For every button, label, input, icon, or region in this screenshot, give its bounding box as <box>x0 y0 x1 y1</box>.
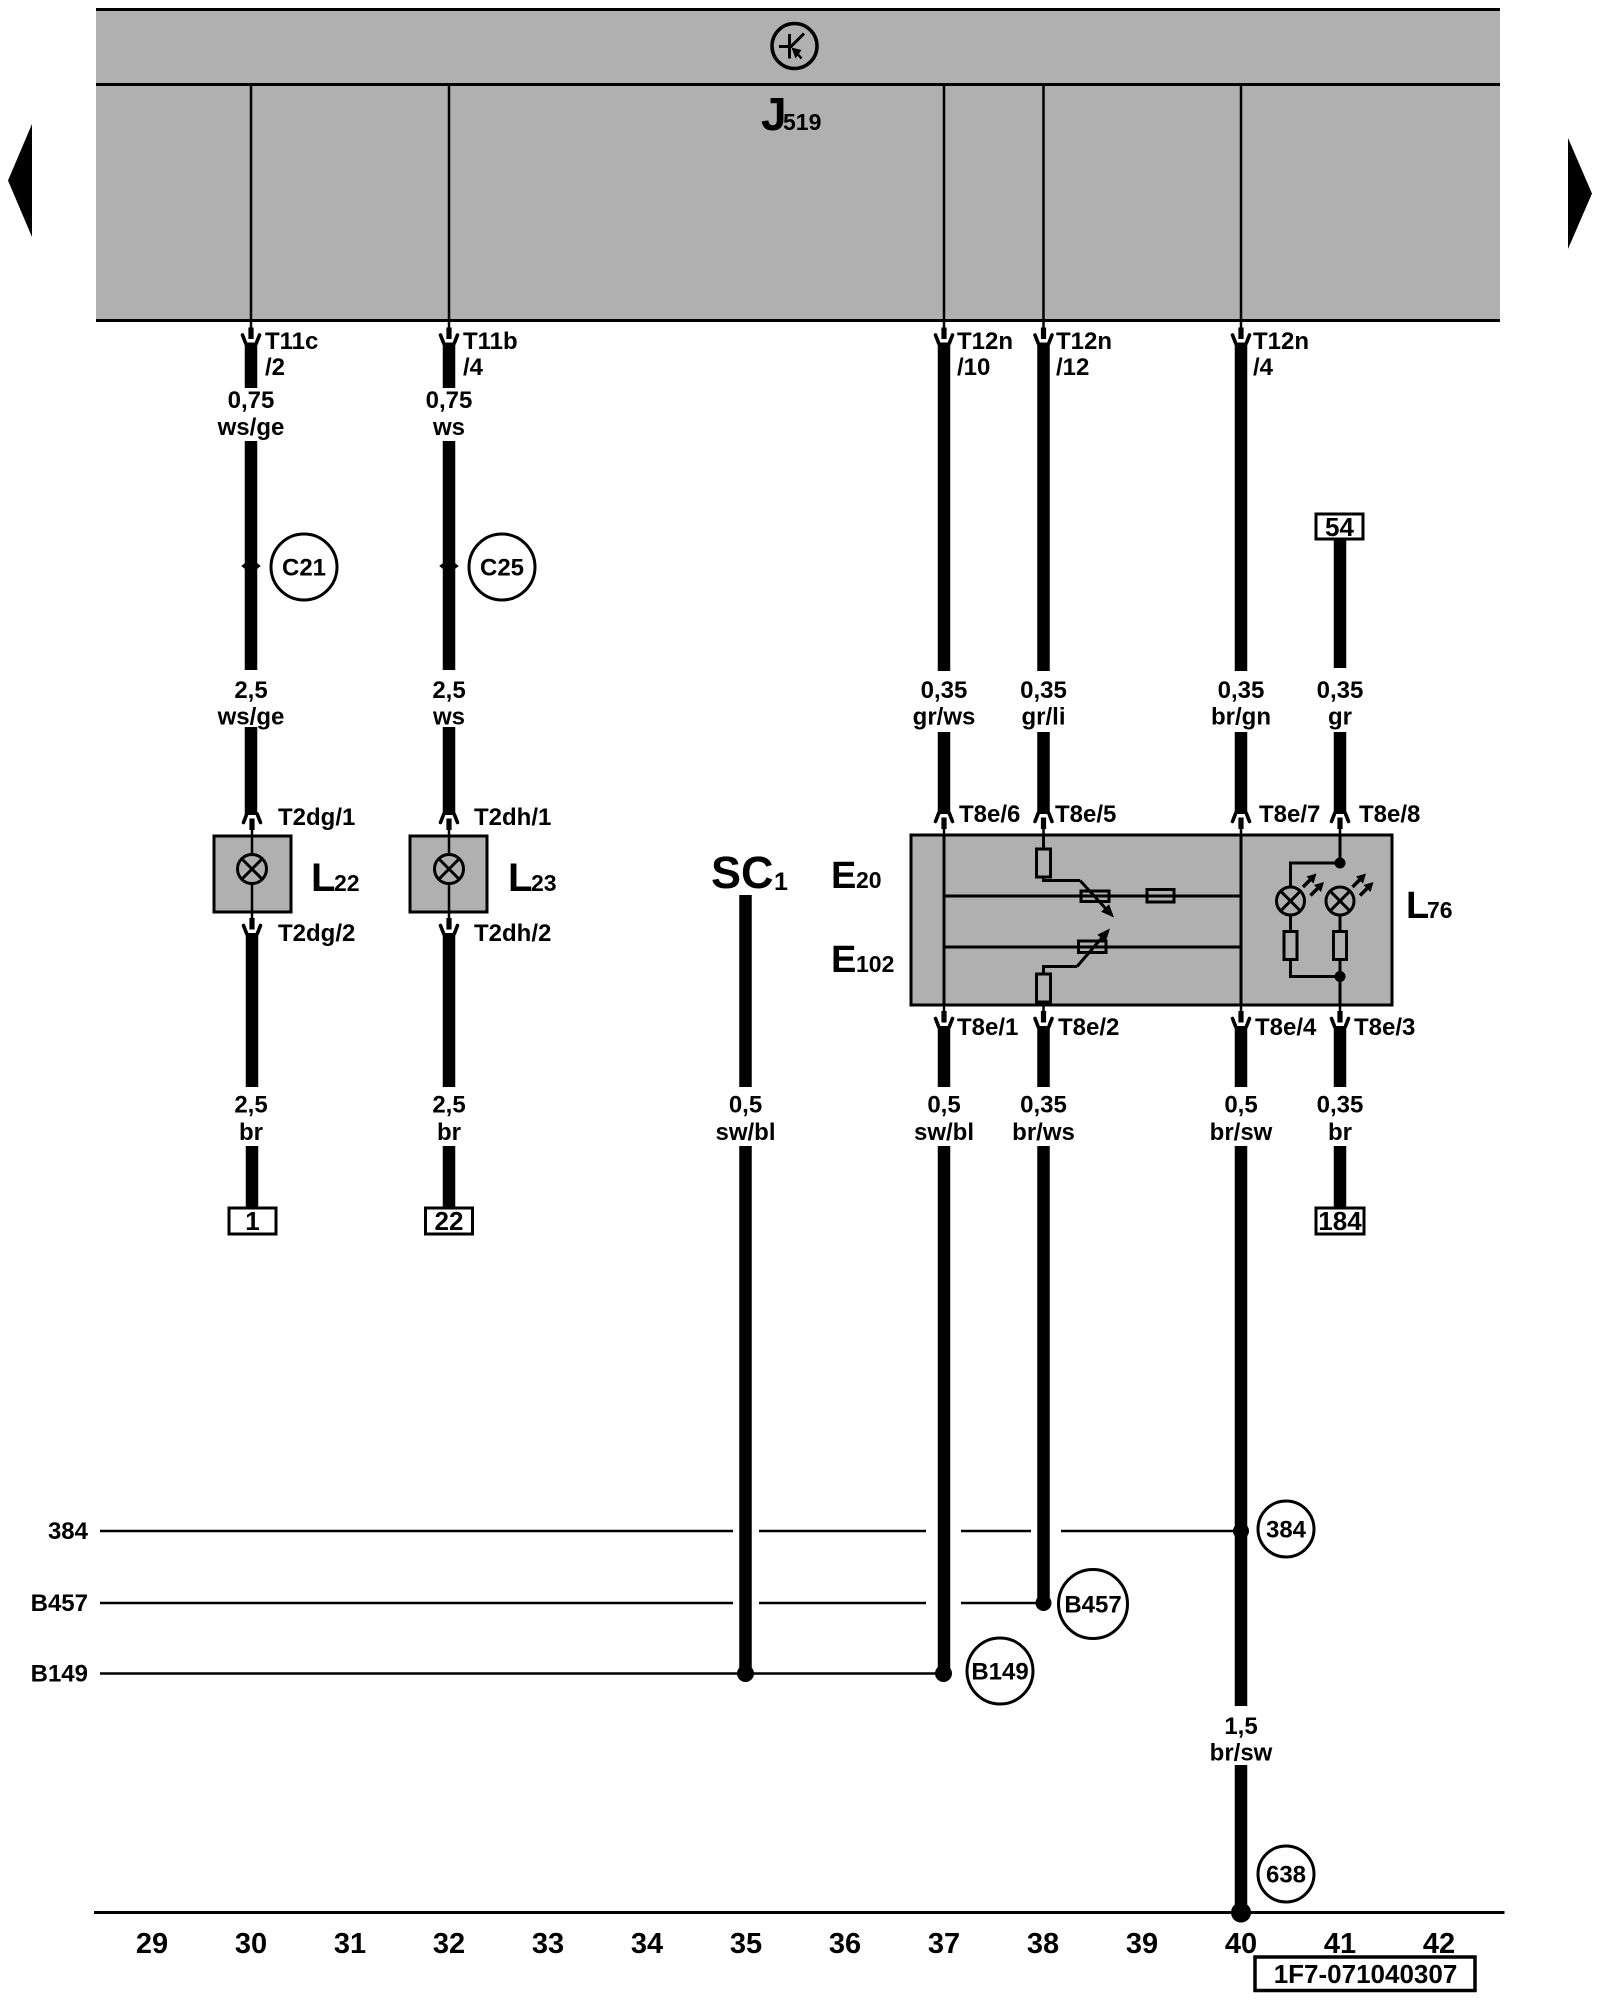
connector T2dg/2 <box>244 912 261 934</box>
svg-text:0,75: 0,75 <box>426 387 473 414</box>
svg-text:384: 384 <box>48 1518 89 1545</box>
svg-text:T2dh/1: T2dh/1 <box>474 804 551 831</box>
svg-text:T2dh/2: T2dh/2 <box>474 920 551 947</box>
svg-text:519: 519 <box>783 109 821 135</box>
wire 2,5 ws lower segment <box>443 727 456 815</box>
svg-text:T8e/5: T8e/5 <box>1055 801 1116 828</box>
svg-text:31: 31 <box>334 1928 366 1960</box>
LED arrows left bulb <box>1303 874 1324 896</box>
label 0,35 gr/ws <box>913 677 976 731</box>
svg-text:638: 638 <box>1266 1862 1306 1889</box>
svg-text:384: 384 <box>1266 1517 1307 1544</box>
pin label T8e/2 <box>1058 1014 1119 1041</box>
svg-text:C21: C21 <box>282 555 326 582</box>
wire T8e/4 through node 384 <box>1235 1146 1248 1706</box>
ground junction node 638 <box>1231 1903 1251 1923</box>
pin label T12n /4 <box>1253 328 1309 381</box>
ground rail line <box>94 1911 1505 1914</box>
svg-text:/12: /12 <box>1056 354 1089 381</box>
svg-text:T12n: T12n <box>957 328 1013 355</box>
pin label T2dg/2 <box>278 920 355 947</box>
wire 2,5 ws/ge lower segment <box>245 727 258 815</box>
label 0,5 sw/bl (SC1) <box>715 1092 775 1147</box>
svg-text:gr/ws: gr/ws <box>913 704 976 731</box>
ground designation 638 <box>1258 1846 1314 1902</box>
wire 0,5 br/sw upper segment (T8e/4) <box>1235 1026 1248 1087</box>
resistor upper (E20 branch from T8e/5) <box>1037 835 1081 881</box>
wire L76 bottom rail <box>1291 960 1341 977</box>
resistor lower (E102 branch to T8e/2) <box>1037 967 1078 1006</box>
wire SC1 lower segment to node B149 <box>739 1146 752 1672</box>
svg-text:L: L <box>1406 885 1429 927</box>
svg-text:B149: B149 <box>31 1661 88 1688</box>
junction node 384 <box>1233 1523 1249 1539</box>
svg-text:35: 35 <box>730 1928 762 1960</box>
junction node B457 <box>1036 1595 1052 1611</box>
svg-text:ws/ge: ws/ge <box>217 704 285 731</box>
label 2,5 br (right) <box>432 1092 465 1147</box>
wire T8e/3 to terminal 184 <box>1334 1146 1347 1208</box>
svg-text:ws: ws <box>432 704 465 731</box>
wire net B149 <box>100 1672 944 1675</box>
connector designation C21 <box>271 534 337 600</box>
svg-text:34: 34 <box>631 1928 663 1960</box>
wire SC1 0,5 sw/bl upper segment <box>739 895 752 1087</box>
svg-text:0,5: 0,5 <box>729 1092 762 1119</box>
control unit J519 (onboard supply control unit) <box>96 8 1500 322</box>
connector T8e/4 <box>1233 1005 1250 1027</box>
connector T2dh/2 <box>441 912 458 934</box>
svg-text:/10: /10 <box>957 354 990 381</box>
svg-text:41: 41 <box>1324 1928 1356 1960</box>
junction node SC1/B149 <box>737 1665 754 1682</box>
label 0,75 ws <box>426 387 473 441</box>
label SC1 <box>711 847 788 898</box>
label 0,75 ws/ge <box>217 387 285 441</box>
pin label T8e/6 <box>959 801 1020 828</box>
wire J519 internal pin line x=251 <box>250 86 253 319</box>
svg-text:23: 23 <box>531 870 557 896</box>
svg-text:ws/ge: ws/ge <box>217 414 285 441</box>
svg-text:L: L <box>508 856 532 900</box>
svg-text:T2dg/2: T2dg/2 <box>278 920 355 947</box>
wire 0,75 ws upper segment <box>443 343 456 389</box>
pin label T11b /4 <box>463 328 518 381</box>
net label B149 <box>31 1661 88 1688</box>
svg-text:B457: B457 <box>1064 1592 1121 1619</box>
label 0,35 br/ws <box>1012 1092 1075 1147</box>
wire 0,35 gr/ws lower segment <box>938 732 951 814</box>
lamp L76 left bulb <box>1277 887 1305 915</box>
node designation B457 <box>1059 1570 1128 1639</box>
label J519 <box>761 88 821 140</box>
svg-text:2,5: 2,5 <box>432 677 465 704</box>
wire right bulb to resistor <box>1339 915 1342 932</box>
wire 0,35 br/ws upper segment (T8e/2) <box>1037 1026 1050 1087</box>
connector designation C25 <box>469 534 535 600</box>
connector T12n/12 <box>1035 322 1052 344</box>
svg-text:42: 42 <box>1423 1928 1455 1960</box>
connector T2dh/1 <box>441 814 458 836</box>
wire 0,35 gr/ws upper segment <box>938 343 951 672</box>
splice node diamond at C21 <box>241 559 261 574</box>
svg-text:gr/li: gr/li <box>1021 704 1065 731</box>
svg-text:T8e/6: T8e/6 <box>959 801 1020 828</box>
wire L76 top rail <box>1291 863 1341 887</box>
ground terminal 184 <box>1316 1206 1364 1236</box>
wire bottom node to T8e/3 <box>1339 977 1342 1006</box>
connector T12n/4 <box>1233 322 1250 344</box>
wire J519 internal pin line x=1241 <box>1240 86 1243 319</box>
svg-text:T11b: T11b <box>463 328 518 355</box>
label 0,35 gr/li <box>1020 677 1067 731</box>
pin label T11c /2 <box>265 328 318 381</box>
wire segment through C25 <box>443 441 456 670</box>
wire 2,5 br from L22 <box>246 933 259 1087</box>
junction node top (L76) <box>1335 858 1346 869</box>
svg-text:39: 39 <box>1126 1928 1158 1960</box>
svg-text:0,75: 0,75 <box>228 387 275 414</box>
svg-text:37: 37 <box>928 1928 960 1960</box>
svg-text:T8e/3: T8e/3 <box>1354 1014 1415 1041</box>
svg-text:0,35: 0,35 <box>1218 677 1265 704</box>
resistor L76 left <box>1284 932 1297 960</box>
svg-text:32: 32 <box>433 1928 465 1960</box>
connector T8e/8 <box>1332 813 1349 835</box>
svg-text:sw/bl: sw/bl <box>715 1119 775 1146</box>
potentiometer E20 (wiper arrow) <box>1080 881 1114 918</box>
wire internal vertical T8e/6 to T8e/1 <box>943 835 946 1005</box>
svg-text:T8e/7: T8e/7 <box>1259 801 1320 828</box>
svg-text:gr: gr <box>1328 704 1352 731</box>
label E102 <box>831 939 894 981</box>
svg-text:1,5: 1,5 <box>1224 1713 1257 1740</box>
connector T11c/2 <box>243 322 260 344</box>
pin label T8e/8 <box>1359 801 1420 828</box>
net label B457 <box>31 1590 88 1617</box>
svg-text:22: 22 <box>435 1206 464 1236</box>
node designation 384 <box>1258 1501 1314 1557</box>
wire net B457 <box>100 1602 1036 1605</box>
svg-text:br: br <box>1328 1119 1352 1146</box>
wire 0,35 gr lower segment <box>1334 732 1347 814</box>
svg-text:/4: /4 <box>1253 354 1274 381</box>
svg-text:B457: B457 <box>31 1590 88 1617</box>
page arrow right <box>1568 138 1592 249</box>
svg-text:0,5: 0,5 <box>927 1092 960 1119</box>
node designation B149 <box>967 1638 1033 1704</box>
label 2,5 ws/ge <box>217 677 285 731</box>
svg-text:36: 36 <box>829 1928 861 1960</box>
svg-text:0,35: 0,35 <box>921 677 968 704</box>
svg-text:30: 30 <box>235 1928 267 1960</box>
svg-text:/2: /2 <box>265 354 285 381</box>
svg-text:33: 33 <box>532 1928 564 1960</box>
svg-text:76: 76 <box>1427 897 1453 923</box>
lamp L23 (license plate light) <box>410 836 487 912</box>
K-line diagnostic symbol <box>772 24 817 69</box>
svg-text:L: L <box>311 856 335 900</box>
label 2,5 br (left) <box>234 1092 267 1147</box>
connector T8e/6 <box>936 813 953 835</box>
wire 0,35 gr from terminal 54 <box>1334 539 1347 668</box>
pin label T12n /12 <box>1056 328 1112 381</box>
svg-text:0,5: 0,5 <box>1224 1092 1257 1119</box>
label L76 <box>1406 885 1453 927</box>
svg-text:1F7-071040307: 1F7-071040307 <box>1274 1959 1458 1989</box>
wire J519 internal pin line x=449 <box>448 86 451 319</box>
pin label T2dh/1 <box>474 804 551 831</box>
wire 0,35 br/gn upper segment <box>1235 343 1248 672</box>
svg-text:br/gn: br/gn <box>1211 704 1271 731</box>
pin label T2dh/2 <box>474 920 551 947</box>
svg-text:0,35: 0,35 <box>1317 677 1364 704</box>
connector T8e/1 <box>936 1005 953 1027</box>
svg-text:1: 1 <box>245 1206 259 1236</box>
wire to ground terminal 22 <box>443 1146 456 1208</box>
svg-text:102: 102 <box>856 951 894 977</box>
svg-text:T8e/1: T8e/1 <box>957 1014 1018 1041</box>
svg-text:20: 20 <box>856 867 882 893</box>
connector T8e/5 <box>1035 813 1052 835</box>
wire 0,5 sw/bl upper segment (T8e/1) <box>938 1026 951 1087</box>
pin label T8e/1 <box>957 1014 1018 1041</box>
svg-text:1: 1 <box>774 868 788 896</box>
svg-text:T8e/2: T8e/2 <box>1058 1014 1119 1041</box>
svg-text:E: E <box>831 855 856 897</box>
wire J519 internal pin line x=1043.5 <box>1042 86 1045 319</box>
svg-text:0,35: 0,35 <box>1317 1092 1364 1119</box>
pin label T8e/4 <box>1255 1014 1317 1041</box>
connector T8e/2 <box>1035 1005 1052 1027</box>
svg-text:T8e/8: T8e/8 <box>1359 801 1420 828</box>
connector T8e/3 <box>1332 1005 1349 1027</box>
wire E102 row <box>944 946 1241 949</box>
svg-text:54: 54 <box>1325 512 1354 542</box>
svg-text:br/sw: br/sw <box>1210 1119 1273 1146</box>
svg-text:2,5: 2,5 <box>432 1092 465 1119</box>
svg-text:29: 29 <box>136 1928 168 1960</box>
label 0,5 sw/bl <box>914 1092 974 1147</box>
wire 0,35 br upper segment (T8e/3) <box>1334 1026 1347 1087</box>
pin label T8e/5 <box>1055 801 1116 828</box>
svg-text:C25: C25 <box>480 555 524 582</box>
pin label T8e/7 <box>1259 801 1320 828</box>
svg-text:T12n: T12n <box>1253 328 1309 355</box>
svg-text:T12n: T12n <box>1056 328 1112 355</box>
connector T8e/7 <box>1233 813 1250 835</box>
pin label T2dg/1 <box>278 804 355 831</box>
potentiometer E102 (wiper arrow) <box>1077 929 1110 967</box>
wire internal vertical T8e/7 to T8e/4 <box>1240 835 1243 1005</box>
connector T2dg/1 <box>244 814 261 836</box>
wire 0,35 gr/li upper segment <box>1037 343 1050 672</box>
lamp L76 right bulb <box>1326 887 1354 915</box>
LED arrows right bulb <box>1353 874 1374 896</box>
grid track numbers 29-42 <box>136 1928 1455 1960</box>
svg-text:T8e/4: T8e/4 <box>1255 1014 1317 1041</box>
resistor fixed on E20 row <box>1147 890 1174 903</box>
junction node T8e1/B149 <box>935 1665 952 1682</box>
svg-text:SC: SC <box>711 847 774 898</box>
wire from T8e/8 down to L76 top node <box>1339 835 1342 863</box>
svg-text:T11c: T11c <box>265 328 318 355</box>
wire 0,35 gr/li lower segment <box>1037 732 1050 814</box>
svg-text:2,5: 2,5 <box>234 1092 267 1119</box>
svg-text:br: br <box>437 1119 461 1146</box>
wire T8e/2 to node B457 <box>1037 1146 1050 1601</box>
pin label T12n /10 <box>957 328 1013 381</box>
svg-text:0,35: 0,35 <box>1020 677 1067 704</box>
switch unit box E20/E102/L76 <box>911 835 1392 1005</box>
label 0,5 br/sw <box>1210 1092 1273 1147</box>
svg-text:br/ws: br/ws <box>1012 1119 1075 1146</box>
svg-text:B149: B149 <box>971 1659 1028 1686</box>
terminal 54 <box>1316 512 1363 542</box>
svg-text:sw/bl: sw/bl <box>914 1119 974 1146</box>
wire T8e/1 to node B149 <box>938 1146 951 1672</box>
svg-text:/4: /4 <box>463 354 484 381</box>
diagram id 1F7-071040307 <box>1255 1957 1475 1991</box>
wire 2,5 br from L23 <box>443 933 456 1087</box>
ground terminal 1 <box>229 1206 276 1236</box>
connector T12n/10 <box>936 322 953 344</box>
wire E20 row <box>944 895 1241 898</box>
wire net 384 <box>100 1530 1235 1533</box>
svg-text:T2dg/1: T2dg/1 <box>278 804 355 831</box>
svg-text:2,5: 2,5 <box>234 677 267 704</box>
svg-text:38: 38 <box>1027 1928 1059 1960</box>
resistor L76 right <box>1334 932 1347 960</box>
wire J519 internal pin line x=944 <box>943 86 946 319</box>
svg-text:184: 184 <box>1318 1206 1362 1236</box>
label 1,5 br/sw <box>1210 1713 1273 1767</box>
svg-text:22: 22 <box>334 870 360 896</box>
svg-text:40: 40 <box>1225 1928 1257 1960</box>
splice node diamond at C25 <box>439 559 459 574</box>
label E20 <box>831 855 882 897</box>
label 2,5 ws <box>432 677 466 731</box>
wire 1,5 br/sw to ground point <box>1235 1765 1248 1911</box>
ground terminal 22 <box>426 1206 473 1236</box>
wire segment through C21 <box>245 441 258 670</box>
svg-text:E: E <box>831 939 856 981</box>
wire right resistor to bottom node <box>1339 960 1342 977</box>
lamp L22 (license plate light) <box>214 836 291 912</box>
connector T11b/4 <box>441 322 458 344</box>
label 0,35 gr <box>1317 677 1364 731</box>
wire to ground terminal 1 <box>246 1146 259 1208</box>
wire left bulb to resistor <box>1289 915 1292 932</box>
net label 384 <box>48 1518 89 1545</box>
label L23 <box>508 856 557 900</box>
page arrow left <box>8 124 32 237</box>
wire 0,75 ws/ge upper segment <box>245 343 258 389</box>
svg-text:br/sw: br/sw <box>1210 1740 1273 1767</box>
wire 0,35 br/gn lower segment <box>1235 732 1248 814</box>
label L22 <box>311 856 360 900</box>
label 0,35 br <box>1317 1092 1364 1147</box>
svg-text:br: br <box>239 1119 263 1146</box>
junction node bottom (L76) <box>1335 971 1346 982</box>
svg-text:ws: ws <box>432 414 465 441</box>
pin label T8e/3 <box>1354 1014 1415 1041</box>
svg-text:0,35: 0,35 <box>1020 1092 1067 1119</box>
label 0,35 br/gn <box>1211 677 1271 731</box>
